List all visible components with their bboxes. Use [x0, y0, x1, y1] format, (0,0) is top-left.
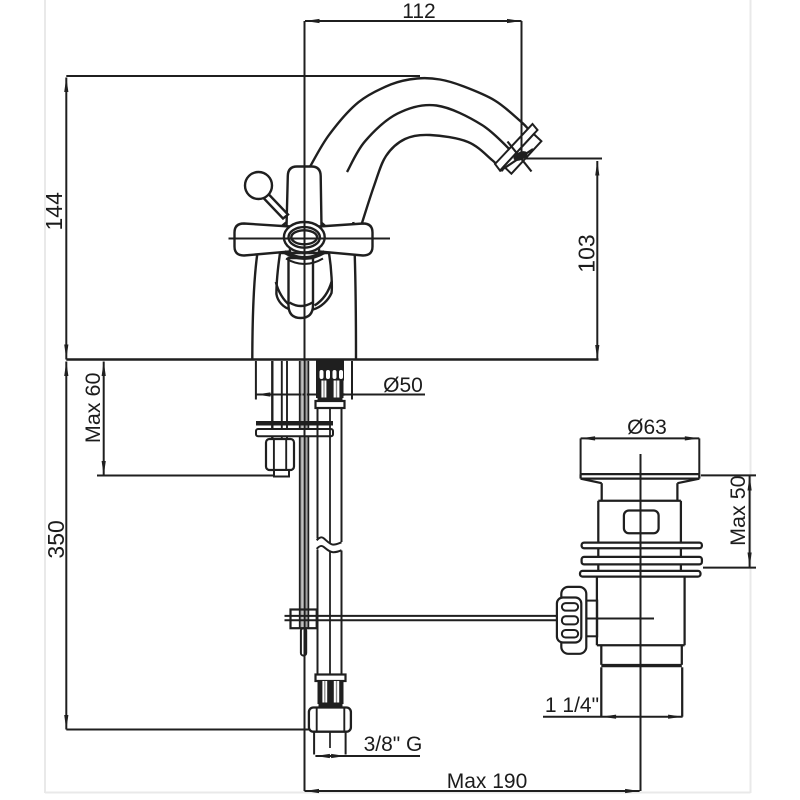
pop-up rod left line: [299, 361, 301, 628]
flange bevel left: [581, 479, 602, 484]
stud nut facet right: [285, 439, 287, 470]
handle inner ellipse: [291, 230, 317, 244]
drain rod inside: [586, 618, 654, 620]
arrow O50 right: [338, 392, 353, 396]
arrow Max50 down: [748, 553, 752, 568]
connector stub center: [329, 732, 331, 748]
braid gray strand 2: [336, 381, 338, 399]
lever ball: [245, 172, 272, 199]
svg-text:112: 112: [402, 0, 435, 23]
dim 350 line: [65, 362, 67, 730]
aerator cross tick: [500, 149, 533, 171]
pipe break wave lower: [317, 546, 342, 552]
aerator tip blob: [512, 149, 529, 163]
tailpiece right: [681, 667, 683, 716]
hex nut facet left: [316, 708, 318, 732]
dim 144 extension top: [66, 75, 420, 77]
hub bottom band: [285, 252, 325, 258]
linkage rod lower line: [285, 619, 558, 621]
supply tube: [316, 408, 346, 681]
stud nut stub: [274, 470, 289, 477]
linkage rod upper line: [285, 615, 558, 617]
arrow 3/8 right: [331, 754, 346, 758]
stud line mid: [281, 361, 283, 439]
dim Max50 extension bottom: [703, 567, 756, 569]
arrow Max50 up: [748, 476, 752, 491]
svg-text:103: 103: [574, 234, 600, 272]
handle dome cap: [281, 216, 327, 228]
braid white slit 1: [321, 381, 326, 399]
svg-text:Ø63: Ø63: [627, 416, 667, 439]
handle middle ellipse: [289, 227, 320, 248]
spout outer curve: [310, 78, 529, 167]
handle bottom spoke: [289, 258, 314, 318]
hex nut facet right: [343, 708, 345, 732]
dim 144 line: [65, 78, 67, 360]
flange bevel right: [677, 479, 699, 484]
tube right edge upper: [341, 408, 343, 542]
arrow 112 left: [305, 19, 320, 23]
arrow 1 1/4 right: [668, 715, 683, 719]
hose crimp bottom band: [318, 398, 343, 402]
connector hex nut: [309, 708, 351, 732]
body upper right: [680, 501, 682, 543]
castellation pill 3: [562, 630, 578, 638]
dim Max50 extension top: [701, 474, 756, 476]
stud nut: [266, 439, 294, 470]
rod clamp block: [291, 610, 317, 629]
handle crosshair horizontal: [229, 238, 391, 240]
washer bar 3: [580, 571, 701, 577]
faint page frame left: [44, 0, 46, 793]
crimp slot 1: [320, 370, 324, 379]
dim 112 extension right: [521, 21, 523, 157]
faint page frame bottom: [45, 792, 751, 794]
connector crimp band: [319, 703, 343, 708]
dim Max190 line: [305, 790, 640, 792]
arrow O50 left: [256, 392, 271, 396]
crimp slot 2: [326, 370, 330, 379]
pop-up rod inner right: [305, 361, 307, 628]
bottom connector braid: [318, 681, 344, 704]
handle outer ellipse: [284, 222, 325, 252]
dim 1 1/4 line: [543, 716, 683, 718]
dim 3/8 line: [315, 755, 420, 757]
stud line right: [286, 361, 288, 439]
washer bar outline: [256, 429, 333, 436]
castellation pill 1: [562, 603, 578, 611]
arrow O63 left: [581, 436, 596, 440]
arrow O63 right: [685, 436, 700, 440]
handle skirt: [276, 253, 331, 310]
faint page frame right: [750, 0, 752, 793]
castellation pill 2: [562, 616, 578, 624]
body seg right b: [680, 564, 682, 571]
svg-text:Ø50: Ø50: [383, 374, 423, 397]
square knob: [624, 511, 659, 534]
body bottom step: [597, 644, 685, 646]
mid section right: [681, 645, 683, 665]
body lower left: [596, 577, 598, 646]
washer bar 2: [582, 557, 702, 565]
lever stem: [263, 193, 289, 219]
tube inner line upper: [329, 408, 331, 543]
dim 112 line: [305, 20, 522, 22]
arrow 103 down: [595, 345, 599, 360]
body left edge: [252, 253, 257, 359]
arrow 350 up: [64, 362, 68, 377]
braided hose top assembly: [316, 361, 345, 409]
svg-text:350: 350: [43, 520, 69, 558]
body seg left b: [597, 564, 599, 571]
braid gray strand 1: [323, 381, 325, 399]
dim O50 line: [256, 394, 425, 396]
dim O50 extension right: [351, 361, 353, 400]
arrow 350 down: [64, 715, 68, 730]
mounting plane line: [66, 358, 598, 360]
connector braid white slit 2: [334, 681, 339, 704]
tube inner line lower: [329, 552, 331, 675]
svg-text:144: 144: [41, 192, 67, 231]
braid white slit 2: [334, 381, 340, 399]
handle right spoke: [319, 224, 373, 256]
skirt leaf arc left: [276, 282, 290, 306]
handle hub blank: [283, 222, 325, 254]
connector stub left edge: [313, 732, 315, 755]
tube right edge lower: [341, 551, 343, 675]
tube left edge lower: [317, 550, 319, 675]
connector braid white slit 1: [322, 681, 327, 704]
dim O63 line: [581, 437, 700, 439]
dim Max50 line: [749, 476, 751, 567]
hose crimp dark band: [316, 361, 344, 381]
bottom spoke cap line: [290, 303, 313, 307]
braid dark block: [316, 381, 344, 399]
rod below clamp: [301, 628, 306, 655]
tailpiece left: [600, 667, 602, 716]
hub bottom thin arc: [286, 259, 323, 265]
castellated nut inner: [557, 598, 581, 643]
castellated nut outer: [561, 587, 586, 654]
shoulder line: [598, 500, 681, 502]
svg-text:Max 190: Max 190: [447, 770, 528, 793]
braid section: [316, 381, 344, 399]
arrow Max190 left: [305, 789, 320, 793]
handle top spoke: [287, 167, 322, 228]
hose collar bottom: [316, 675, 346, 682]
mid bottom thick line: [601, 664, 682, 667]
skirt leaf arc right: [315, 281, 332, 306]
connector braid dark block: [318, 681, 344, 704]
connector stub right edge: [345, 732, 347, 755]
arrow Max60 up: [102, 362, 106, 377]
connector braid gray strand 2: [336, 681, 338, 704]
svg-text:Max 60: Max 60: [81, 373, 105, 444]
connector braid gray strand 1: [324, 681, 326, 704]
centerline drain axis: [640, 454, 642, 791]
aerator end cap: [504, 134, 542, 174]
crimp slot 3: [333, 370, 337, 379]
arrow Max190 right: [625, 789, 640, 793]
aerator axis tick: [508, 142, 532, 172]
neck left: [601, 483, 603, 501]
arrow Max60 down: [102, 461, 106, 476]
arrow 144 up: [64, 78, 68, 93]
dim 350 extension bottom: [66, 729, 309, 731]
aerator band 1: [495, 124, 538, 171]
arrow 144 down: [64, 345, 68, 360]
pop-up rod right line: [307, 361, 309, 628]
centerline faucet axis: [304, 21, 306, 791]
hose nut: [316, 401, 345, 408]
svg-text:1 1/4": 1 1/4": [545, 694, 599, 717]
dim Max60 extension bottom: [97, 475, 289, 477]
body seg left a: [597, 548, 599, 557]
dim O63 extension left: [580, 438, 582, 474]
arrow 112 right: [507, 19, 522, 23]
body seg right a: [680, 548, 682, 557]
svg-text:Max 50: Max 50: [726, 475, 750, 546]
dim 112 extension overlay at spout tip: [521, 130, 523, 157]
flange left end: [579, 474, 581, 479]
handle left spoke: [235, 224, 291, 256]
body lower right: [683, 577, 685, 646]
mid section left: [600, 645, 602, 665]
arrow 3/8 left: [315, 754, 330, 758]
flange right end: [698, 474, 700, 479]
dim 103 line: [596, 161, 598, 360]
pop-up rod inner left: [301, 361, 303, 628]
dim O63 extension right: [698, 438, 700, 474]
flange second line: [581, 477, 700, 479]
neck right: [676, 483, 678, 501]
svg-text:3/8" G: 3/8" G: [364, 733, 423, 756]
flange top line: [581, 473, 700, 475]
spout inner highlight curve: [347, 105, 515, 172]
linkage connector rect: [586, 601, 597, 637]
arrow 103 up: [595, 161, 599, 176]
arrow 1 1/4 left: [602, 715, 617, 719]
stud nut facet left: [273, 439, 275, 470]
tube left edge upper: [317, 408, 319, 539]
dim 103 extension top: [524, 158, 602, 160]
body upper left: [597, 501, 599, 543]
stud line left: [271, 361, 273, 439]
washer bar dark: [256, 421, 333, 426]
crimp slot 4: [339, 370, 343, 379]
dim O50 extension left: [255, 361, 257, 400]
washer bar 1: [582, 543, 702, 549]
body right edge: [353, 222, 356, 359]
dim Max60 line: [103, 362, 105, 476]
pipe break wave upper: [317, 537, 342, 544]
spout arch underside curve: [362, 135, 503, 223]
